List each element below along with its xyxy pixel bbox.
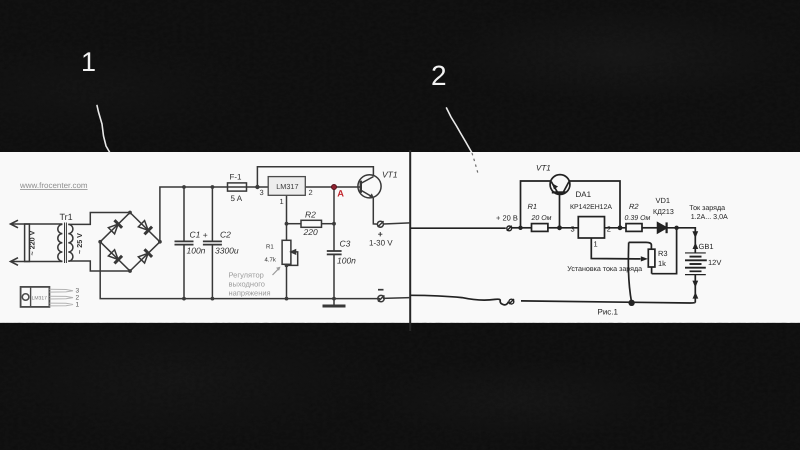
svg-text:2: 2 [431, 60, 447, 91]
resistor R2 [301, 220, 322, 227]
bottom arrow (up) [693, 292, 699, 299]
LM317 package TO-220 body [21, 287, 50, 307]
capacitor C2 [211, 187, 213, 241]
svg-text:C2: C2 [220, 230, 231, 240]
junction dots left circuit [98, 185, 336, 301]
transistor VT1 (right) circle [550, 175, 570, 195]
svg-text:1: 1 [594, 239, 598, 248]
svg-text:VD1: VD1 [656, 196, 671, 205]
VT1 collector diagonal [564, 182, 570, 192]
regulator DA1 box [578, 217, 604, 238]
node A red dot [332, 185, 337, 190]
svg-text:100n: 100n [187, 246, 206, 256]
mains input plug bar [25, 224, 30, 262]
svg-text:R3: R3 [658, 249, 668, 258]
svg-text:VT1: VT1 [382, 169, 398, 179]
svg-text:2: 2 [607, 224, 611, 233]
junction dots right circuit [518, 225, 679, 306]
VT1 emitter diagonal with arrow [362, 191, 374, 198]
svg-text:1-30 V: 1-30 V [369, 238, 393, 247]
DA1 pin1 wire down [591, 238, 640, 259]
wire terminal to input node [512, 227, 521, 229]
svg-text:R2: R2 [629, 202, 639, 211]
transformer Tr1 primary winding [58, 224, 63, 261]
svg-text:3: 3 [76, 287, 80, 294]
svg-text:LM317: LM317 [32, 295, 48, 301]
bridge diode D1 (left-top edge) [108, 220, 122, 234]
potentiometer R3 [648, 249, 655, 267]
LM317 package pin 1 lead [49, 303, 73, 306]
svg-text:1: 1 [81, 47, 96, 77]
svg-text:4.7k: 4.7k [265, 256, 277, 263]
charge current arrow (down) [692, 231, 698, 238]
svg-text:100n: 100n [337, 255, 356, 265]
wire LM317 input bypass to collector [257, 167, 373, 187]
battery bottom lead [694, 275, 696, 303]
wire diode to battery branch [667, 228, 696, 253]
svg-text:Установка тока заряда: Установка тока заряда [567, 265, 642, 273]
wire VT1 base down [559, 193, 561, 228]
svg-text:1k: 1k [658, 259, 666, 268]
wire LM317 output to base [305, 186, 360, 188]
wire secondary bottom to bridge [68, 261, 130, 271]
R3 top wire to long vertical [629, 242, 652, 249]
svg-text:Tr1: Tr1 [60, 212, 73, 222]
scratch mark under label 1 [97, 106, 110, 153]
transformer Tr1 secondary winding [68, 224, 73, 261]
scratch mark under label 2 [447, 108, 472, 152]
LM317 regulator U1 [268, 177, 305, 196]
wire secondary top to bridge [68, 213, 130, 225]
svg-text:R1: R1 [266, 243, 274, 250]
VT1 base bar (horizontal) [552, 191, 566, 193]
potentiometer R1 [282, 240, 291, 264]
bridge diamond edge BR [130, 242, 160, 271]
wiper arrow into R3 [641, 256, 648, 261]
bridge diamond edge BL [100, 242, 130, 271]
svg-text:Ток заряда: Ток заряда [689, 204, 725, 212]
wire fuse to LM317 pin 3 [247, 186, 269, 188]
svg-text:1: 1 [280, 197, 284, 206]
svg-text:3300u: 3300u [215, 246, 239, 256]
wire VD1 node down to R3 bottom [652, 228, 677, 274]
svg-text:~ 220 V: ~ 220 V [27, 230, 36, 255]
LM317 package hole [22, 294, 29, 301]
svg-text:КД213: КД213 [653, 208, 674, 216]
bridge diode D4 (bottom-right edge) [138, 249, 152, 263]
bridge diode D2 (top-right edge) [138, 220, 152, 234]
svg-text:+: + [378, 229, 383, 239]
svg-text:220: 220 [303, 227, 318, 237]
leather texture top [0, 0, 800, 152]
annotation arrow to R1 [273, 269, 279, 275]
VT1 emitter diagonal with arrow [551, 182, 557, 192]
R1 wiper rheostat link [287, 252, 298, 266]
svg-text:5 A: 5 A [231, 194, 243, 203]
capacitor C1 [183, 187, 185, 241]
svg-text:12V: 12V [708, 258, 721, 267]
svg-text:3: 3 [571, 224, 575, 233]
svg-text:F-1: F-1 [230, 173, 243, 182]
svg-text:www.frocenter.com: www.frocenter.com [19, 181, 88, 190]
wire bridge minus down to bottom rail [100, 242, 380, 299]
frame divider between photos [409, 150, 411, 331]
wire + terminal to divider [383, 223, 410, 224]
bridge diode D3 (left-bottom edge) [108, 249, 122, 263]
wire LM317 pin1 down [286, 195, 288, 240]
svg-text:напряжения: напряжения [229, 288, 271, 297]
diode VD1 [658, 223, 667, 233]
wire mains input top lead [12, 223, 63, 225]
wire mains input bottom lead [12, 261, 63, 263]
svg-text:R1: R1 [528, 202, 538, 211]
wire +20V input [410, 227, 506, 229]
svg-text:2: 2 [309, 188, 313, 197]
fuse F-1 [228, 183, 247, 191]
wire collector rail right and down [570, 181, 621, 228]
capacitor C3 [327, 250, 342, 252]
svg-text:1: 1 [76, 301, 80, 308]
long vertical wire to bottom rail [628, 242, 631, 302]
output terminal + [377, 221, 383, 227]
svg-text:20 Ом: 20 Ом [531, 215, 552, 222]
svg-text:1.2А... 3,0А: 1.2А... 3,0А [691, 213, 728, 221]
LM317 package pin 2 lead [49, 296, 73, 299]
ground [333, 299, 335, 306]
resistor R2 (0.39 Ohm) [626, 224, 642, 232]
mains arrow bottom [11, 258, 19, 266]
transistor VT1 circle [358, 175, 381, 198]
VT1 collector diagonal [362, 177, 374, 183]
svg-text:0.39 Ом: 0.39 Ом [625, 215, 651, 222]
bottom arrow (down) [692, 281, 698, 288]
svg-text:DA1: DA1 [576, 190, 592, 199]
wire DA1 pin2 to junction [605, 227, 627, 229]
bridge diamond edge TR [130, 213, 160, 242]
wire bridge plus up to top rail [160, 187, 228, 242]
svg-text:C3: C3 [340, 239, 351, 249]
wire emitter down to + terminal [373, 198, 377, 224]
svg-text:R2: R2 [305, 209, 316, 219]
input terminal [507, 226, 512, 231]
svg-text:C1: C1 [190, 230, 201, 240]
wire bottom rail to divider [383, 297, 410, 300]
svg-text:2: 2 [76, 294, 80, 301]
svg-text:+: + [203, 230, 208, 240]
mains arrow top [11, 220, 19, 228]
svg-text:выходного: выходного [229, 279, 265, 288]
output terminal - [378, 295, 384, 301]
wire node A down to R2/C3 [333, 187, 335, 251]
svg-text:Рис.1: Рис.1 [598, 307, 619, 316]
battery top arrow (up) [693, 242, 699, 249]
resistor R1 (20 Ohm) [532, 224, 548, 232]
R3 bottom lead [651, 267, 653, 274]
wire R1 node to DA1 pin3 [560, 227, 579, 229]
svg-text:3: 3 [260, 188, 264, 197]
bottom terminal [509, 299, 514, 304]
svg-text:Регулятор: Регулятор [229, 270, 264, 279]
svg-text:LM317: LM317 [276, 182, 298, 191]
svg-text:+ 20 В: + 20 В [496, 214, 518, 223]
minus sign [378, 289, 384, 291]
leather texture bottom [0, 322, 800, 450]
battery GB1 plates [685, 252, 706, 254]
wire input node up to VT1 emitter rail [521, 181, 551, 228]
svg-text:VT1: VT1 [536, 164, 551, 173]
bottom wire squiggle to divider [410, 295, 509, 305]
svg-text:КР142ЕН12А: КР142ЕН12А [570, 204, 612, 211]
VT1 base bar [360, 181, 362, 193]
LM317 package pin 3 lead [49, 289, 73, 292]
transformer core [64, 223, 66, 264]
svg-text:A: A [337, 189, 344, 199]
svg-text:~ 25 V: ~ 25 V [75, 233, 84, 254]
bottom rail [521, 301, 695, 303]
svg-text:GB1: GB1 [699, 242, 714, 251]
12V label [701, 259, 707, 261]
bridge diamond edge TL [100, 213, 130, 242]
